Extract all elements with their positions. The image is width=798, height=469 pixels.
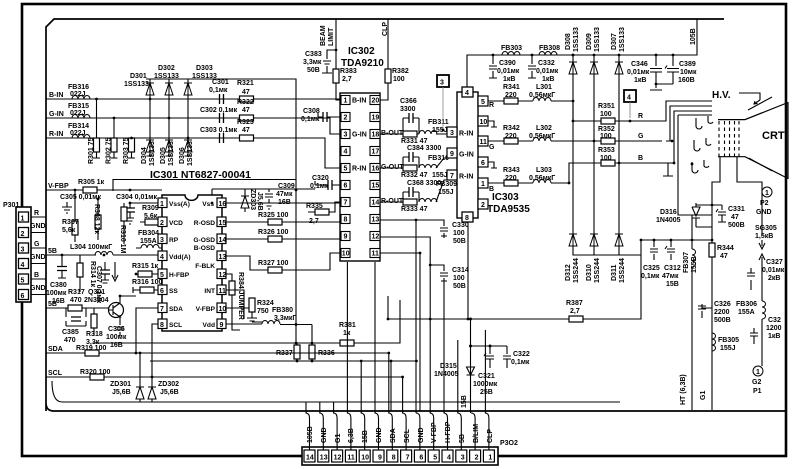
svg-text:F-BLK: F-BLK [195, 263, 215, 270]
wire R-IN [46, 138, 340, 168]
wire P302 pin risers [306, 413, 489, 450]
svg-text:500В: 500В [728, 222, 745, 229]
svg-text:12: 12 [219, 272, 227, 279]
svg-text:155J: 155J [432, 172, 448, 179]
svg-text:V-FBP: V-FBP [196, 306, 216, 313]
svg-text:16: 16 [372, 166, 380, 173]
capacitor C321 1000mk 25B [484, 346, 494, 368]
capacitor C380 100mk 16B [58, 255, 66, 278]
svg-text:C384 3300: C384 3300 [407, 145, 441, 152]
svg-text:1кВ: 1кВ [503, 76, 515, 83]
wire 5B lower [46, 307, 68, 309]
svg-text:C330: C330 [452, 222, 469, 229]
svg-text:R324: R324 [257, 300, 274, 307]
svg-text:022J: 022J [70, 110, 86, 117]
svg-text:3: 3 [461, 455, 465, 462]
svg-text:1N4005: 1N4005 [656, 217, 681, 224]
svg-text:5В: 5В [48, 301, 57, 308]
wire R387 run [388, 255, 641, 319]
svg-text:7: 7 [344, 200, 348, 207]
wire pin15 R-OSD [226, 221, 296, 223]
svg-text:1N4005: 1N4005 [434, 371, 459, 378]
wire diode column B down [618, 163, 620, 234]
svg-text:HT (6,3В): HT (6,3В) [680, 374, 687, 405]
svg-text:0,56мкГ: 0,56мкГ [529, 92, 555, 99]
resistor R344 47 [709, 243, 715, 257]
svg-text:4: 4 [465, 90, 469, 97]
svg-text:15В: 15В [461, 395, 468, 408]
svg-text:G2: G2 [752, 379, 761, 386]
ferrite bead FB311 155J [419, 131, 437, 135]
svg-text:7: 7 [160, 306, 164, 313]
wire pin13 B-OSD [226, 256, 296, 270]
svg-text:022J: 022J [70, 130, 86, 137]
svg-text:8: 8 [392, 455, 396, 462]
resistor R353 100 [601, 160, 615, 166]
svg-text:D310: D310 [586, 264, 593, 281]
svg-text:FB316: FB316 [68, 84, 89, 91]
svg-text:B-IN: B-IN [352, 98, 366, 105]
wire pin14 R-OUT chain [380, 180, 451, 202]
svg-text:0,1мк: 0,1мк [301, 116, 320, 123]
svg-text:100: 100 [600, 155, 612, 162]
coil L301 0,56mkG [533, 98, 551, 102]
svg-text:C305 0,01мк: C305 0,01мк [60, 194, 101, 201]
svg-text:G1: G1 [335, 434, 342, 443]
svg-text:1SS133: 1SS133 [619, 27, 626, 52]
CRT base dashed pins [719, 121, 739, 157]
svg-text:BEAM: BEAM [320, 25, 327, 46]
svg-text:100мк: 100мк [106, 334, 127, 341]
svg-text:47: 47 [242, 127, 250, 134]
junction dots misc [61, 54, 694, 363]
svg-text:R-IN: R-IN [49, 131, 63, 138]
wire SDA bus [46, 352, 270, 354]
svg-text:220: 220 [505, 92, 517, 99]
svg-text:6: 6 [21, 293, 25, 300]
svg-text:14: 14 [372, 200, 380, 207]
svg-text:100: 100 [600, 111, 612, 118]
svg-text:10: 10 [219, 306, 227, 313]
wire ground run bottom [52, 381, 620, 402]
capacitor C314 100 50B [430, 265, 448, 283]
svg-text:C321: C321 [478, 373, 495, 380]
svg-text:R315 1к: R315 1к [132, 263, 159, 270]
svg-text:FB308: FB308 [539, 45, 560, 52]
svg-text:C306: C306 [108, 326, 125, 333]
junction dots bus [492, 54, 675, 86]
resistor R382 100 [385, 69, 391, 83]
svg-text:D302: D302 [158, 65, 175, 72]
svg-text:13: 13 [372, 217, 380, 224]
svg-text:1: 1 [21, 216, 25, 223]
svg-text:C331: C331 [728, 206, 745, 213]
IC302 pin boxes right column 20-11 [370, 96, 380, 258]
wire 5B to L304 [46, 254, 96, 256]
capacitor C307 0,1mk [100, 270, 110, 274]
capacitor C332 0,01mk 1kB [528, 55, 536, 78]
svg-text:GND: GND [756, 209, 772, 216]
svg-text:5: 5 [481, 99, 485, 106]
IC301 pin boxes left [158, 198, 167, 329]
svg-text:R314 1к: R314 1к [89, 261, 96, 288]
wire pin9 Vdd [226, 323, 262, 325]
svg-text:Vdd: Vdd [203, 322, 215, 329]
svg-text:3,3мк: 3,3мк [303, 59, 322, 66]
svg-text:6: 6 [481, 160, 485, 167]
svg-text:GND: GND [30, 254, 46, 261]
svg-text:100мк: 100мк [46, 290, 67, 297]
svg-text:B: B [489, 186, 494, 193]
svg-text:IC302: IC302 [348, 46, 375, 57]
svg-text:47: 47 [242, 107, 250, 114]
svg-text:CLP: CLP [487, 429, 494, 443]
svg-text:1,5кВ: 1,5кВ [755, 233, 773, 240]
CRT socket nest wires [662, 101, 712, 215]
svg-text:GND: GND [30, 285, 46, 292]
svg-text:1SS133: 1SS133 [124, 81, 149, 88]
svg-text:FB304: FB304 [138, 230, 159, 237]
svg-text:R331 47: R331 47 [401, 138, 428, 145]
wire pin8 R325 [296, 221, 341, 223]
svg-text:R316 100: R316 100 [132, 279, 162, 286]
capacitor C385 470 [66, 308, 86, 326]
ferrite bead FB310 155J [419, 165, 437, 169]
node box 4 top [624, 90, 636, 102]
resistor R336 [309, 345, 315, 359]
resistor R318 3,3k [91, 314, 97, 328]
svg-text:G-OSD: G-OSD [193, 237, 215, 244]
svg-text:G: G [34, 241, 40, 248]
svg-text:220: 220 [505, 175, 517, 182]
svg-text:SCL: SCL [169, 322, 182, 329]
svg-text:H-FBP: H-FBP [445, 421, 452, 443]
capacitor C309 47mk 16B [265, 189, 273, 209]
ferrite bead FB309 155J [419, 199, 437, 203]
wire G1 column [711, 262, 713, 410]
resistor R321 [240, 96, 254, 102]
wire Q301 collector up [120, 296, 136, 323]
svg-text:C301: C301 [212, 79, 229, 86]
IC301 body [162, 195, 222, 331]
svg-text:20: 20 [372, 98, 380, 105]
capacitor C389 10mk 160B [656, 55, 679, 84]
svg-text:14: 14 [306, 455, 314, 462]
capacitor C346 0,01mk 1kB [650, 55, 662, 90]
svg-text:1: 1 [488, 455, 492, 462]
diode D311 1SS244 [615, 234, 623, 246]
svg-text:C327: C327 [766, 259, 783, 266]
svg-text:2200: 2200 [714, 309, 730, 316]
svg-text:6,3В: 6,3В [348, 428, 355, 443]
svg-text:R-OSD: R-OSD [194, 220, 215, 227]
IC303 right pins 5 10 11 6 1 2 [478, 96, 488, 209]
wire pin14 G-OSD [226, 238, 296, 240]
capacitor C326 2200 500B [698, 304, 712, 318]
svg-text:2: 2 [481, 202, 485, 209]
svg-text:4: 4 [447, 455, 451, 462]
node box 3 [437, 75, 449, 87]
svg-text:R352: R352 [598, 126, 615, 133]
wire beam limit drop [336, 19, 341, 100]
svg-text:C304 0,01мк: C304 0,01мк [116, 194, 157, 201]
svg-text:FB314: FB314 [68, 123, 89, 130]
svg-text:14: 14 [219, 237, 227, 244]
svg-text:Vdd(A): Vdd(A) [169, 254, 191, 261]
resistor R387 2,7 [569, 316, 583, 322]
capacitor C301 [220, 94, 224, 104]
svg-text:FB311: FB311 [428, 119, 449, 126]
capacitor C383 3,3mk 50B [322, 50, 336, 73]
svg-text:7: 7 [450, 173, 454, 180]
svg-text:C32: C32 [768, 317, 781, 324]
diode D301 [146, 83, 154, 95]
svg-text:3: 3 [450, 130, 454, 137]
wire B out row [488, 163, 662, 183]
resistor R310 1M [121, 207, 127, 221]
main schematic boundary box [46, 19, 786, 411]
svg-text:5В: 5В [48, 248, 57, 255]
svg-text:47: 47 [242, 89, 250, 96]
svg-text:B-OSD: B-OSD [194, 245, 215, 252]
diode D304 [146, 140, 154, 152]
IC303 left pins 3 9 7 [447, 127, 457, 180]
svg-text:R342: R342 [503, 125, 520, 132]
svg-text:155A: 155A [140, 238, 157, 245]
resistor R322 [240, 115, 254, 121]
svg-text:FB310: FB310 [428, 155, 449, 162]
svg-text:R-IN: R-IN [459, 174, 473, 181]
svg-text:0,1мк: 0,1мк [310, 183, 329, 190]
wire diode column R down [572, 121, 574, 234]
svg-text:R384 JUMPER: R384 JUMPER [237, 272, 244, 320]
svg-text:SDA: SDA [169, 306, 183, 313]
svg-text:1SS244: 1SS244 [619, 258, 626, 283]
svg-text:1SS133: 1SS133 [168, 141, 175, 166]
svg-text:100: 100 [453, 230, 465, 237]
svg-text:470: 470 [64, 337, 76, 344]
svg-text:R317: R317 [68, 289, 85, 296]
svg-text:5: 5 [344, 166, 348, 173]
svg-text:FB380: FB380 [272, 307, 293, 314]
svg-text:G1: G1 [700, 391, 707, 400]
svg-text:D308: D308 [565, 33, 572, 50]
svg-text:R344: R344 [717, 245, 734, 252]
connector P302 [302, 447, 498, 465]
svg-text:6: 6 [344, 183, 348, 190]
svg-text:C322: C322 [513, 351, 530, 358]
diode D306 [184, 140, 192, 152]
svg-text:15В: 15В [666, 281, 679, 288]
wire G out row [488, 140, 662, 142]
svg-text:P2: P2 [760, 200, 769, 207]
svg-text:TDA9535: TDA9535 [487, 204, 530, 215]
IC302 pin boxes left column 1-10 [341, 96, 350, 258]
resistor R352 100 [601, 138, 615, 144]
svg-text:R323: R323 [237, 119, 254, 126]
svg-text:4: 4 [21, 262, 25, 269]
wire diode column G down [593, 141, 595, 234]
capacitor C303 [220, 133, 224, 143]
svg-text:0,1мк: 0,1мк [209, 87, 228, 94]
svg-text:2: 2 [344, 115, 348, 122]
wire top bus 9V [467, 19, 697, 87]
svg-text:G-IN: G-IN [49, 111, 64, 118]
svg-text:1: 1 [765, 190, 769, 197]
svg-text:GND: GND [376, 427, 383, 443]
svg-text:500В: 500В [714, 317, 731, 324]
capacitor C312 47mk 15B [665, 240, 675, 260]
svg-text:R: R [489, 102, 494, 109]
wire pin10 stub [488, 121, 497, 127]
svg-text:750: 750 [257, 308, 269, 315]
capacitor C325 0,1mk [650, 240, 658, 260]
svg-text:R: R [638, 113, 643, 120]
svg-text:4: 4 [627, 95, 631, 102]
wire G-IN [46, 118, 340, 134]
svg-text:B: B [638, 155, 643, 162]
svg-text:D307: D307 [611, 33, 618, 50]
resistor R302 75 [111, 138, 117, 152]
svg-text:1SS244: 1SS244 [594, 258, 601, 283]
svg-text:8: 8 [160, 322, 164, 329]
svg-text:50В: 50В [453, 283, 466, 290]
resistor R337 [294, 345, 300, 359]
svg-text:C309: C309 [278, 183, 295, 190]
svg-text:5: 5 [21, 278, 25, 285]
svg-text:17: 17 [372, 149, 380, 156]
svg-text:R383: R383 [340, 68, 357, 75]
svg-text:155J: 155J [720, 345, 736, 352]
svg-text:13: 13 [320, 455, 328, 462]
svg-text:022J: 022J [70, 91, 86, 98]
wire CRT neck drops [712, 157, 762, 240]
svg-text:11: 11 [219, 288, 227, 295]
wire IC301 pin7 SDA drop [136, 308, 158, 353]
svg-text:10: 10 [480, 119, 488, 126]
svg-text:SS: SS [169, 288, 178, 295]
svg-text:R: R [34, 210, 39, 217]
wire V-FBP [46, 189, 162, 191]
svg-text:R310 1М: R310 1М [119, 225, 126, 254]
svg-text:D306: D306 [179, 147, 186, 164]
svg-text:L304 100мкГ: L304 100мкГ [70, 244, 112, 251]
svg-text:R387: R387 [566, 300, 583, 307]
svg-text:D301: D301 [130, 73, 147, 80]
svg-text:9: 9 [344, 234, 348, 241]
svg-text:220: 220 [505, 133, 517, 140]
resistor R383 2,7 [333, 69, 339, 83]
svg-text:LIMIT: LIMIT [328, 27, 335, 46]
wire bundle verticals to P302 [270, 220, 485, 413]
svg-text:B-IN: B-IN [49, 92, 63, 99]
svg-text:6: 6 [419, 455, 423, 462]
svg-text:P1: P1 [753, 388, 762, 395]
IC303 pin 8 [462, 212, 473, 222]
wire C321 node [471, 345, 508, 347]
svg-text:1SS133: 1SS133 [594, 27, 601, 52]
svg-text:47мк: 47мк [662, 273, 679, 280]
svg-text:1кВ: 1кВ [542, 76, 554, 83]
svg-text:11: 11 [480, 139, 488, 146]
svg-text:2,7: 2,7 [342, 76, 352, 83]
svg-text:0,56мкГ: 0,56мкГ [529, 133, 555, 140]
CRT funnel [718, 102, 788, 179]
svg-text:3: 3 [160, 237, 164, 244]
wire pin12 F-BLK drop [226, 274, 232, 281]
svg-text:D304: D304 [141, 147, 148, 164]
resistor R308 12k [95, 215, 101, 229]
svg-text:8: 8 [465, 215, 469, 222]
svg-text:R303 75: R303 75 [123, 137, 130, 164]
svg-text:C332: C332 [538, 60, 555, 67]
capacitor C331 47 500B [716, 205, 726, 222]
svg-text:ZD301: ZD301 [110, 381, 131, 388]
svg-text:R301 75: R301 75 [88, 137, 95, 164]
svg-text:D312: D312 [565, 264, 572, 281]
svg-text:D303: D303 [196, 65, 213, 72]
zener ZD301 J5,6B [136, 353, 144, 402]
capacitor C327 0,01mk 2kB [747, 268, 755, 290]
IC301 pin boxes right [217, 198, 226, 329]
IC302 body [340, 93, 380, 261]
svg-text:C389: C389 [679, 61, 696, 68]
svg-text:6: 6 [160, 288, 164, 295]
svg-text:13: 13 [219, 254, 227, 261]
svg-text:1SS133: 1SS133 [149, 141, 156, 166]
svg-text:R302 75: R302 75 [106, 137, 113, 164]
svg-text:RP: RP [169, 237, 179, 244]
svg-text:12: 12 [372, 234, 380, 241]
IC303 body [457, 92, 478, 218]
coil L302 0,56mkG [533, 138, 551, 142]
svg-text:0,1мк: 0,1мк [511, 359, 530, 366]
svg-text:D315: D315 [440, 363, 457, 370]
svg-text:100: 100 [600, 133, 612, 140]
svg-text:1200: 1200 [766, 325, 782, 332]
svg-text:C380: C380 [50, 282, 67, 289]
svg-text:1SS133: 1SS133 [573, 27, 580, 52]
wire pin11 INT [226, 290, 244, 319]
capacitor C32 1200 1kB [750, 328, 758, 344]
svg-text:1: 1 [756, 369, 760, 376]
svg-text:12: 12 [334, 455, 342, 462]
capacitor C330 100 50B [380, 220, 448, 238]
svg-text:18: 18 [372, 132, 380, 139]
svg-text:R309: R309 [142, 205, 159, 212]
svg-text:15В: 15В [362, 430, 369, 443]
label G2 P1 [753, 366, 763, 376]
svg-text:10: 10 [361, 455, 369, 462]
svg-text:R305 1к: R305 1к [78, 179, 105, 186]
wire pin18 B-OUT chain [380, 118, 451, 134]
ferrite bead FB307 155B [692, 249, 696, 267]
svg-text:C346: C346 [631, 61, 648, 68]
svg-text:J5,6В: J5,6В [112, 389, 131, 396]
svg-text:0,01мк: 0,01мк [627, 69, 650, 76]
svg-text:4: 4 [160, 254, 164, 261]
svg-text:IC303: IC303 [492, 192, 519, 203]
svg-text:R322: R322 [237, 99, 254, 106]
wire node4 drop [629, 102, 631, 118]
junction dots y240 [653, 239, 694, 242]
jumper R384 [229, 281, 235, 295]
svg-text:R343: R343 [503, 167, 520, 174]
svg-text:C390: C390 [499, 60, 516, 67]
svg-text:H.V.: H.V. [712, 90, 731, 101]
svg-text:25В: 25В [480, 389, 493, 396]
wire IC301 pin5 H-FBP [136, 273, 158, 275]
